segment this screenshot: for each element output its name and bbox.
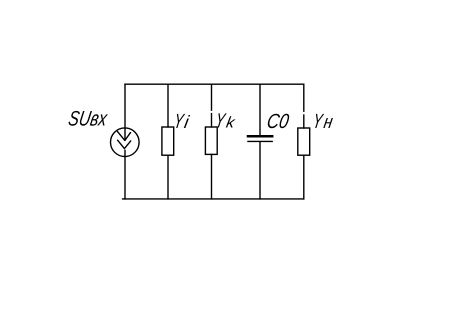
svg-text:SUвх: SUвх	[67, 107, 110, 130]
svg-text:C0: C0	[265, 110, 291, 133]
